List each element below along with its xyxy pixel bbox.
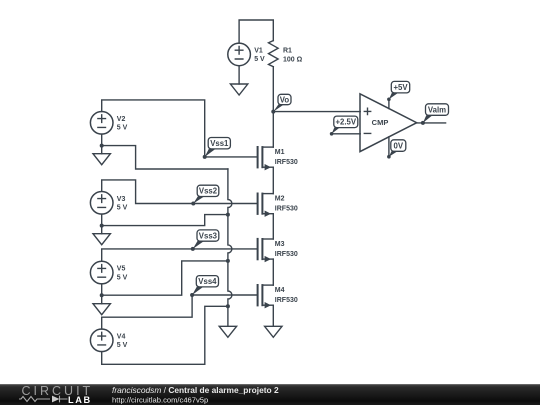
transistor M1: [258, 147, 298, 170]
voltage source V1: [228, 43, 265, 66]
node rail-V5 junction dot: [226, 259, 230, 263]
ground rail bottom: [219, 326, 236, 337]
label Vss2: [193, 185, 219, 203]
voltage source V5: [90, 261, 127, 284]
ground under M4: [265, 326, 282, 337]
pin V- stub of op-amp: [388, 137, 390, 157]
wire M2 source to M3 drain: [272, 214, 274, 239]
label +2.5V: [330, 116, 358, 136]
wire V5- to ground: [101, 295, 103, 304]
svg-text:Vss1: Vss1: [210, 139, 229, 148]
svg-text:IRF530: IRF530: [275, 159, 298, 166]
svg-text:M1: M1: [275, 149, 285, 156]
svg-text:CMP: CMP: [372, 118, 389, 127]
wire node Vo to op-amp + input: [273, 111, 360, 113]
svg-text:5 V: 5 V: [117, 274, 128, 281]
wire V3- to ground rail: [102, 215, 228, 226]
svg-text:V2: V2: [117, 116, 126, 123]
footer bar: [0, 384, 540, 405]
ground under V2: [93, 154, 110, 165]
label Valm: [423, 104, 449, 123]
wire M3 source to M4 drain: [272, 259, 274, 285]
label Vss1: [205, 138, 231, 157]
wire V3+ to M2 gate (net Vss2): [102, 180, 258, 204]
ground under V1: [230, 84, 247, 95]
wire V4+ to M4 gate (net Vss4): [102, 295, 258, 329]
wire V4- to ground rail: [102, 306, 228, 364]
svg-text:M3: M3: [275, 241, 285, 248]
node rail-V4 junction dot: [226, 304, 230, 308]
wire op-amp output: [417, 122, 446, 124]
transistor M2: [258, 194, 298, 217]
svg-text:5 V: 5 V: [117, 342, 128, 349]
voltage source V4: [90, 329, 127, 352]
svg-text:100 Ω: 100 Ω: [283, 56, 303, 63]
svg-text:V5: V5: [117, 266, 126, 273]
svg-text:franciscodsm / Central de alar: franciscodsm / Central de alarme_projeto…: [112, 385, 279, 395]
resistor R1: [269, 41, 303, 67]
node Valm dot: [421, 121, 425, 125]
ground under V5: [93, 304, 110, 315]
node Vo junction dot: [271, 110, 275, 114]
pin V+ stub of op-amp: [388, 99, 390, 108]
wire M4 source to ground: [272, 305, 274, 326]
svg-text:5 V: 5 V: [117, 205, 128, 212]
svg-text:IRF530: IRF530: [275, 297, 298, 304]
label 0V: [387, 140, 406, 159]
svg-text:V4: V4: [117, 333, 126, 340]
wire V1 top to R1 top: [239, 20, 273, 43]
wire V2- to ground rail: [102, 146, 228, 169]
node V2- junction dot: [100, 144, 104, 148]
node Vss2 anchor dot: [191, 202, 195, 206]
label Vss3: [193, 230, 219, 249]
svg-text:Vss2: Vss2: [199, 187, 218, 196]
svg-text:0V: 0V: [394, 141, 404, 150]
svg-text:Vss3: Vss3: [199, 231, 218, 240]
voltage source V3: [90, 192, 127, 215]
wire V2- to ground: [101, 146, 103, 154]
wire V5+ to M3 gate (net Vss3): [102, 249, 258, 261]
svg-text:+5V: +5V: [393, 83, 408, 92]
svg-text:Vo: Vo: [280, 95, 290, 104]
svg-text:http://circuitlab.com/c467v5p: http://circuitlab.com/c467v5p: [112, 396, 208, 405]
svg-text:5 V: 5 V: [254, 56, 265, 63]
label Vo: [273, 94, 291, 111]
svg-text:V3: V3: [117, 196, 126, 203]
svg-text:R1: R1: [283, 48, 292, 55]
node Vss1 anchor dot: [203, 155, 207, 159]
node Vss4 anchor dot: [190, 293, 194, 297]
node V5- junction dot: [100, 293, 104, 297]
svg-text:M2: M2: [275, 196, 285, 203]
svg-text:5 V: 5 V: [117, 125, 128, 132]
svg-text:+2.5V: +2.5V: [336, 118, 357, 127]
op-amp CMP: [360, 94, 417, 152]
wire V1 to ground: [238, 66, 240, 84]
node V3- junction dot: [100, 224, 104, 228]
wire M1 drain: [272, 112, 274, 148]
transistor M4: [258, 285, 298, 308]
wire V5- to ground rail: [102, 261, 228, 295]
wire R1 bottom to node Vo: [272, 67, 274, 112]
wire V3- to ground: [101, 226, 103, 234]
svg-text:Valm: Valm: [428, 105, 446, 114]
label Vss4: [192, 276, 218, 295]
ground under V3: [93, 234, 110, 245]
svg-text:LAB: LAB: [68, 395, 92, 405]
wire op-amp - input stub: [332, 133, 361, 135]
wire V2- down: [101, 134, 103, 146]
wire M1 source to M2 drain: [272, 167, 274, 193]
node Vss3 anchor dot: [191, 247, 195, 251]
wire V3- down: [101, 214, 103, 226]
transistor M3: [258, 239, 298, 262]
label +5V: [387, 81, 410, 101]
wire V2+ to M1 gate (net Vss1): [102, 100, 258, 157]
wire V5- down: [101, 284, 103, 295]
svg-text:V1: V1: [254, 47, 263, 54]
ground rail with hops: [228, 169, 232, 326]
svg-text:IRF530: IRF530: [275, 251, 298, 258]
voltage source V2: [90, 112, 127, 135]
svg-text:IRF530: IRF530: [275, 205, 298, 212]
node rail-V3 junction dot: [226, 213, 230, 217]
svg-text:M4: M4: [275, 287, 285, 294]
svg-text:Vss4: Vss4: [198, 277, 217, 286]
